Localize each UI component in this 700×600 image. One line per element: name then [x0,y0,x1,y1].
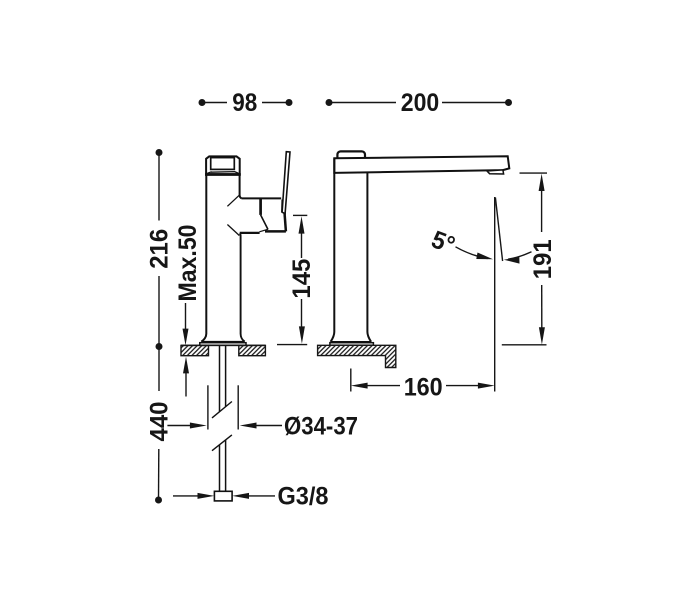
right faucet spout arm [334,156,509,173]
hole reference bars [208,385,238,429]
right faucet knob [337,151,365,161]
left counter hatch right block [239,345,266,355]
svg-text:G3/8: G3/8 [278,483,329,511]
left counter top line [181,344,265,346]
pipe break slash 2 [212,435,232,451]
svg-text:440: 440 [145,402,173,442]
right counter hatched section [318,345,396,367]
dimension 440 line [155,347,162,504]
dimension 191 line [502,173,547,345]
right faucet riser column [331,158,372,341]
dimension 145 line [277,215,307,344]
svg-text:160: 160 [404,374,443,402]
dimension Max.50 lower arrow [183,357,189,397]
left faucet head box [205,156,241,174]
dimension 98 line [199,99,293,106]
G3/8 connector [214,491,232,501]
dimension 200 line [326,99,513,106]
dimension 216 line [156,149,163,350]
left faucet handle housing [240,198,286,233]
dimension 5 degrees left arc arrow [456,247,494,259]
pipe break slash 1 [212,402,232,418]
left faucet transition lines [227,195,239,235]
left faucet body column [201,175,244,342]
dimension Max.50 upper arrow [183,303,189,345]
svg-text:216: 216 [146,229,174,269]
svg-text:145: 145 [288,259,316,299]
left faucet lever [282,152,290,214]
left counter hatch left block [181,345,209,355]
dimension diameter 34-37 arrows [167,423,282,429]
outlet extension line [494,197,496,392]
svg-text:Max.50: Max.50 [174,225,202,302]
svg-text:98: 98 [232,89,257,117]
supply pipe upper segment [220,346,226,412]
right faucet aerator tip [487,170,504,174]
right faucet base plate [330,342,374,345]
dimension G3/8 arrows [173,493,275,499]
svg-text:200: 200 [401,89,440,117]
svg-text:191: 191 [529,239,557,279]
dimension 5 degrees right arc arrow [504,252,532,264]
dimension 160 line [351,369,495,392]
left faucet base plate [200,342,246,346]
supply pipe lower segment [220,440,226,492]
5 degree tilted line [495,198,502,262]
svg-text:Ø34-37: Ø34-37 [284,412,358,440]
